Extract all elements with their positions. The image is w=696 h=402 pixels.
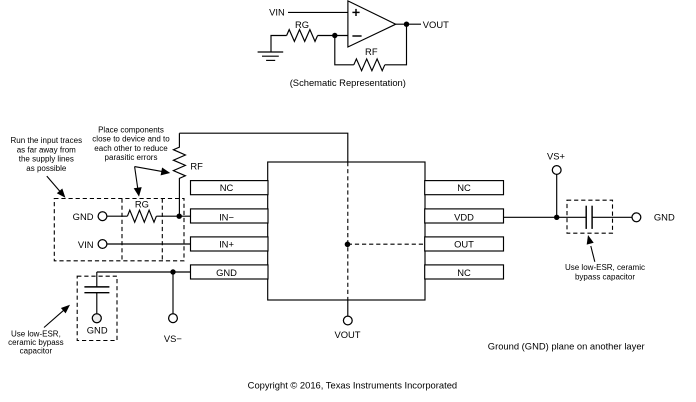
wire VS+ to VDD trace bbox=[556, 174, 558, 217]
resistor RG (layout) bbox=[127, 210, 156, 222]
svg-text:NC: NC bbox=[457, 182, 471, 193]
svg-text:bypass capacitor: bypass capacitor bbox=[575, 273, 635, 282]
wire ground to RG bbox=[271, 36, 287, 53]
terminal VS- bbox=[169, 314, 178, 323]
svg-text:IN+: IN+ bbox=[219, 238, 234, 249]
svg-text:close to device and to: close to device and to bbox=[92, 135, 170, 144]
arrow from Run-text to dashed box bbox=[47, 176, 66, 198]
terminal GND (input) bbox=[98, 212, 107, 221]
svg-text:as possible: as possible bbox=[26, 164, 67, 173]
svg-text:Ground (GND) plane on another: Ground (GND) plane on another layer bbox=[488, 341, 645, 352]
svg-text:RG: RG bbox=[295, 19, 309, 30]
wire RF top to IC bbox=[179, 133, 347, 162]
arrow to left capacitor box bbox=[44, 305, 70, 328]
op-amp + input symbol bbox=[352, 9, 359, 16]
terminal VOUT bbox=[343, 316, 352, 325]
dashed box around left capacitor bbox=[77, 276, 117, 340]
IC body U1 bbox=[268, 162, 425, 300]
wire feedback left leg bbox=[335, 36, 354, 65]
node: RF/RG/IN- junction bbox=[177, 214, 182, 219]
svg-text:(Schematic Representation): (Schematic Representation) bbox=[290, 77, 406, 88]
node: internal via bbox=[345, 242, 351, 248]
wire VDD pad to capacitor bbox=[504, 216, 587, 218]
pad IN- bbox=[191, 209, 269, 223]
svg-text:VIN: VIN bbox=[269, 7, 285, 18]
svg-text:as far away from: as far away from bbox=[17, 145, 76, 154]
op-amp - input symbol bbox=[352, 35, 361, 37]
svg-text:VS−: VS− bbox=[164, 333, 183, 344]
svg-text:VOUT: VOUT bbox=[334, 329, 360, 340]
terminal GND (bottom left) bbox=[92, 314, 101, 323]
svg-text:NC: NC bbox=[457, 267, 471, 278]
node: GND/VS- junction bbox=[170, 269, 175, 274]
wire GND to RG bbox=[107, 215, 128, 217]
pad IN+ bbox=[191, 237, 269, 251]
wire VIN to IN+ pad bbox=[107, 243, 191, 245]
terminal VIN bbox=[98, 240, 107, 249]
svg-text:the supply lines: the supply lines bbox=[19, 155, 74, 164]
terminal VS+ bbox=[552, 166, 561, 175]
wire RG to inverting input bbox=[318, 35, 348, 37]
svg-text:RG: RG bbox=[135, 199, 149, 210]
svg-text:GND: GND bbox=[654, 211, 675, 222]
svg-text:each other to reduce: each other to reduce bbox=[94, 144, 168, 153]
dashed box around right capacitor bbox=[567, 200, 613, 233]
terminal GND (right) bbox=[632, 213, 641, 222]
wire RG to IN- pad bbox=[156, 215, 190, 217]
op-amp U1 bbox=[348, 1, 396, 47]
node: output junction bbox=[404, 22, 409, 27]
svg-text:GND: GND bbox=[216, 267, 237, 278]
dashed box around input terminals bbox=[54, 199, 184, 261]
svg-text:IN−: IN− bbox=[219, 212, 234, 223]
capacitor C1 (bypass, left) bbox=[96, 272, 98, 314]
wire feedback right leg bbox=[385, 24, 407, 65]
resistor RG (schematic) bbox=[287, 30, 318, 42]
svg-text:GND: GND bbox=[87, 325, 108, 336]
node: VDD/VS+ junction bbox=[554, 215, 559, 220]
pad VDD bbox=[425, 209, 504, 223]
svg-text:VS+: VS+ bbox=[547, 151, 566, 162]
pad GND (left bottom) bbox=[191, 265, 269, 279]
svg-text:capacitor: capacitor bbox=[20, 346, 53, 355]
svg-text:VDD: VDD bbox=[454, 212, 474, 223]
dashed box around RG/RF area (shared edges) bbox=[121, 199, 123, 261]
svg-text:NC: NC bbox=[220, 182, 234, 193]
dashed internal trace vertical bbox=[347, 162, 349, 300]
pad NC (right bottom) bbox=[425, 265, 504, 279]
svg-text:RF: RF bbox=[190, 161, 203, 172]
svg-text:Use low-ESR, ceramic: Use low-ESR, ceramic bbox=[565, 263, 645, 272]
wire VIN to op-amp + input bbox=[288, 11, 348, 13]
dashed internal trace horizontal bbox=[348, 243, 426, 245]
svg-text:Copyright © 2016, Texas Instru: Copyright © 2016, Texas Instruments Inco… bbox=[248, 379, 457, 390]
pad NC (right top) bbox=[425, 181, 504, 195]
svg-text:parasitic errors: parasitic errors bbox=[105, 153, 158, 162]
svg-text:OUT: OUT bbox=[454, 238, 474, 249]
arrow to right capacitor box bbox=[587, 235, 595, 262]
pad OUT bbox=[425, 237, 504, 251]
node: inverting input junction bbox=[332, 33, 337, 38]
svg-text:Place components: Place components bbox=[98, 125, 164, 134]
pad NC (left top) bbox=[191, 181, 269, 195]
wire IC to VOUT bbox=[347, 300, 349, 316]
svg-text:GND: GND bbox=[73, 211, 94, 222]
wire GND pad to bypass capacitor bbox=[97, 271, 191, 273]
arrow from Place-text to RG bbox=[134, 167, 142, 197]
svg-text:VOUT: VOUT bbox=[423, 19, 449, 30]
resistor RF (layout) bbox=[173, 133, 185, 216]
resistor RF (schematic) bbox=[354, 59, 385, 71]
arrow from Place-text to RF bbox=[135, 167, 171, 176]
svg-text:RF: RF bbox=[365, 46, 378, 57]
svg-text:Run the input traces: Run the input traces bbox=[10, 136, 82, 145]
wire capacitor to GND terminal bbox=[592, 216, 632, 218]
wire junction to VS- bbox=[172, 272, 174, 314]
capacitor C2 (bypass, right) bbox=[586, 206, 592, 229]
ground (schematic) bbox=[258, 52, 284, 60]
svg-text:VIN: VIN bbox=[78, 239, 94, 250]
wire output to VOUT bbox=[396, 23, 421, 25]
